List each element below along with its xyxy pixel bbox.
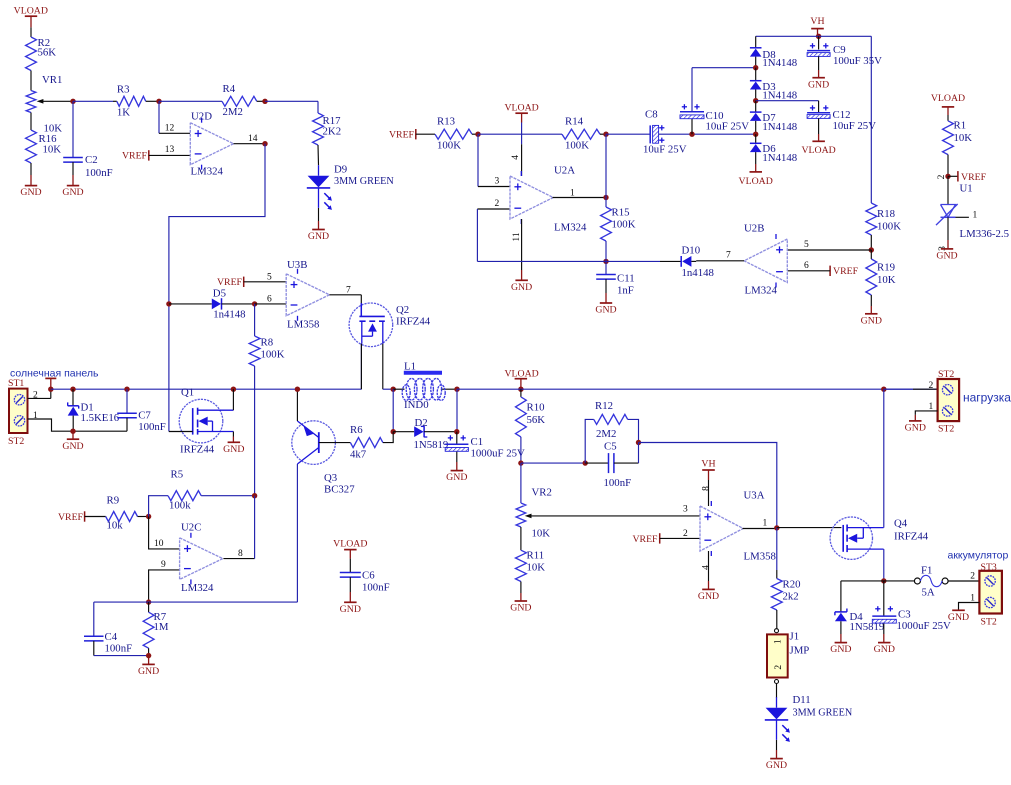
svg-text:100nF: 100nF bbox=[362, 582, 390, 594]
node R13/pin3 junction bbox=[475, 132, 480, 137]
resistor R9 bbox=[106, 495, 149, 532]
ground below U1 bbox=[936, 217, 957, 261]
svg-text:2: 2 bbox=[33, 391, 38, 401]
svg-text:C5: C5 bbox=[604, 441, 617, 453]
svg-text:GND: GND bbox=[808, 79, 829, 90]
svg-text:U3A: U3A bbox=[744, 490, 765, 502]
resistor R2 bbox=[26, 37, 57, 71]
svg-text:6: 6 bbox=[267, 295, 272, 305]
ground below C2 bbox=[62, 175, 83, 198]
node C10 bottom junction bbox=[689, 132, 694, 137]
ground below R19 bbox=[861, 295, 882, 326]
pin 5 label U3B bbox=[267, 273, 272, 283]
connector ST2 load designator bbox=[938, 369, 954, 380]
svg-text:D11: D11 bbox=[793, 694, 811, 706]
wire panel bus bbox=[51, 344, 362, 390]
node R9/R5 junction bbox=[146, 514, 151, 519]
svg-text:VREF: VREF bbox=[217, 277, 243, 288]
svg-text:GND: GND bbox=[830, 644, 851, 655]
pin 6 label U3B bbox=[267, 295, 272, 305]
capacitor C6 bbox=[340, 570, 390, 594]
transistor Q1 IRFZ44 bbox=[179, 387, 233, 456]
node pin9/R7/C4 junction bbox=[146, 599, 151, 604]
wire output to Q4 gate bbox=[777, 527, 842, 529]
wire junction to pin 10 bbox=[149, 517, 180, 549]
node R10/VR2/C5 junction bbox=[518, 460, 523, 465]
power VLOAD below D6 bbox=[739, 164, 773, 187]
node bus left end bbox=[48, 387, 53, 392]
svg-text:LM358: LM358 bbox=[287, 319, 319, 331]
pin 2 label (rotated) bbox=[937, 174, 947, 179]
power VREF at U1 bbox=[948, 171, 987, 183]
ground below R11 bbox=[510, 582, 531, 614]
pin 12 label bbox=[165, 124, 175, 134]
pin 1 label bbox=[973, 211, 978, 221]
jumper J1 bbox=[767, 629, 809, 684]
svg-text:1000uF 25V: 1000uF 25V bbox=[471, 448, 525, 460]
svg-text:1000uF 25V: 1000uF 25V bbox=[897, 620, 951, 632]
resistor R12 bbox=[585, 400, 638, 463]
potentiometer VR1 bbox=[26, 74, 73, 135]
svg-text:IND0: IND0 bbox=[404, 399, 429, 411]
svg-text:10uF 25V: 10uF 25V bbox=[643, 144, 687, 156]
power VLOAD above R1 bbox=[931, 93, 965, 121]
wire junction to pin 6 U3B bbox=[255, 303, 287, 305]
svg-text:F1: F1 bbox=[921, 565, 932, 577]
LED D9 bbox=[307, 164, 395, 210]
wire junction to R4 bbox=[159, 100, 222, 102]
svg-text:GND: GND bbox=[698, 591, 719, 602]
wire VR1-R16 bbox=[30, 113, 32, 131]
node Q1 drain on bus bbox=[231, 387, 236, 392]
resistor R6 bbox=[350, 424, 393, 461]
diode D8 bbox=[750, 36, 797, 69]
op-amp U2C bbox=[180, 522, 223, 595]
power VLOAD below C12 bbox=[801, 118, 835, 156]
node R5/R8/output junction bbox=[252, 493, 257, 498]
svg-text:LM336-2.5: LM336-2.5 bbox=[960, 228, 1009, 240]
svg-text:1n4148: 1n4148 bbox=[682, 267, 714, 279]
svg-text:аккумулятор: аккумулятор bbox=[948, 550, 1009, 562]
capacitor C8 (polarized, series) bbox=[606, 109, 687, 156]
power VREF at U3B pin 5 bbox=[217, 277, 286, 288]
svg-text:11: 11 bbox=[512, 232, 522, 241]
wire U3A output bbox=[743, 528, 777, 530]
node D1 top bbox=[70, 387, 75, 392]
svg-text:1N4148: 1N4148 bbox=[762, 121, 797, 133]
svg-text:1N5819: 1N5819 bbox=[414, 439, 449, 451]
ground below D9 bbox=[308, 208, 329, 242]
node D5 branch junction bbox=[166, 301, 171, 306]
svg-text:R11: R11 bbox=[527, 550, 545, 562]
connector ST3 designator bbox=[981, 562, 997, 573]
resistor R3 bbox=[113, 84, 159, 119]
diode D7 bbox=[750, 101, 797, 135]
svg-text:GND: GND bbox=[62, 441, 83, 452]
svg-text:R20: R20 bbox=[783, 579, 801, 591]
power VREF at pin 6 bbox=[787, 266, 858, 278]
wire to pin 12 bbox=[159, 101, 190, 133]
resistor R19 bbox=[866, 250, 896, 295]
svg-text:VLOAD: VLOAD bbox=[931, 93, 965, 104]
svg-text:C7: C7 bbox=[138, 410, 151, 422]
svg-text:ST1: ST1 bbox=[8, 378, 24, 389]
svg-text:10uF 25V: 10uF 25V bbox=[833, 120, 877, 132]
svg-text:VLOAD: VLOAD bbox=[801, 145, 835, 156]
node VLOAD bus junction bbox=[518, 387, 523, 392]
svg-text:8: 8 bbox=[238, 549, 243, 559]
ground below C11 bbox=[595, 293, 616, 316]
svg-text:R1: R1 bbox=[954, 120, 967, 132]
svg-text:C2: C2 bbox=[85, 154, 98, 166]
svg-text:13: 13 bbox=[165, 145, 175, 155]
diode D10 bbox=[681, 245, 714, 279]
svg-text:U2C: U2C bbox=[181, 522, 201, 534]
wire VH bus bbox=[756, 36, 872, 203]
svg-text:100uF 35V: 100uF 35V bbox=[833, 55, 882, 67]
svg-text:R12: R12 bbox=[595, 400, 613, 412]
pin 2 label U3A bbox=[683, 529, 688, 539]
diode D6 bbox=[750, 134, 797, 164]
svg-text:BC327: BC327 bbox=[324, 484, 355, 496]
svg-text:D9: D9 bbox=[334, 164, 347, 176]
wire R13 junction to R14 bbox=[478, 133, 562, 135]
svg-text:5: 5 bbox=[804, 240, 809, 250]
node L1 right junction bbox=[454, 387, 459, 392]
pin 13 label bbox=[165, 145, 175, 155]
wire output to Q1 gate column bbox=[169, 144, 265, 432]
svg-text:100nF: 100nF bbox=[105, 643, 133, 655]
wire L1 bypass right bbox=[456, 389, 458, 432]
wire junction to fuse bbox=[884, 580, 915, 582]
svg-text:VR2: VR2 bbox=[532, 487, 552, 499]
svg-text:GND: GND bbox=[766, 760, 787, 771]
svg-text:2K2: 2K2 bbox=[323, 125, 342, 137]
svg-text:R10: R10 bbox=[527, 402, 545, 414]
svg-text:C1: C1 bbox=[471, 436, 484, 448]
resistor R20 bbox=[771, 528, 800, 629]
ground below D11 bbox=[766, 740, 787, 771]
connector ST2 load body bbox=[938, 379, 960, 421]
svg-text:1n4148: 1n4148 bbox=[213, 309, 245, 321]
svg-text:Q2: Q2 bbox=[396, 304, 409, 316]
svg-text:U2B: U2B bbox=[744, 223, 764, 235]
svg-text:C8: C8 bbox=[645, 109, 658, 121]
ground below D4 bbox=[830, 634, 851, 655]
wire Q4 drain riser bbox=[883, 389, 885, 527]
svg-text:10K: 10K bbox=[954, 132, 973, 144]
op-amp U2A bbox=[510, 165, 587, 234]
node D3/D7 junction bbox=[753, 98, 758, 103]
svg-text:VREF: VREF bbox=[833, 266, 859, 277]
ground below D1 bbox=[62, 431, 83, 452]
wire ST1 pin2 to bus bbox=[28, 389, 51, 398]
svg-text:GND: GND bbox=[308, 231, 329, 242]
svg-text:GND: GND bbox=[510, 603, 531, 614]
svg-text:GND: GND bbox=[874, 644, 895, 655]
svg-text:C9: C9 bbox=[833, 44, 846, 56]
node load bus junction bbox=[881, 387, 886, 392]
svg-text:IRFZ44: IRFZ44 bbox=[894, 531, 929, 543]
wire U2C output feedback bbox=[223, 496, 254, 559]
svg-text:GND: GND bbox=[223, 444, 244, 455]
pin 10 label bbox=[154, 539, 164, 549]
svg-text:D10: D10 bbox=[682, 245, 701, 257]
diode D4 (1N5819) bbox=[835, 609, 884, 635]
svg-text:1K: 1K bbox=[117, 107, 130, 119]
node C7 top bbox=[124, 387, 129, 392]
power VLOAD above C6 bbox=[333, 538, 367, 572]
svg-text:R4: R4 bbox=[223, 83, 236, 95]
connector ST2 load type label bbox=[938, 424, 954, 435]
svg-text:Q3: Q3 bbox=[324, 472, 337, 484]
pin 7 label U3B bbox=[346, 286, 351, 296]
node D5/R8/pin6 junction bbox=[252, 301, 257, 306]
wire Q2 drain drop bbox=[383, 344, 393, 390]
svg-text:1N4148: 1N4148 bbox=[762, 90, 797, 102]
svg-text:LM324: LM324 bbox=[191, 166, 224, 178]
power VREF at pin 13 bbox=[122, 150, 190, 161]
svg-text:R19: R19 bbox=[877, 262, 895, 274]
wire bus L1 to load bbox=[457, 388, 938, 390]
pin 8 label bbox=[238, 549, 243, 559]
svg-text:4: 4 bbox=[511, 155, 521, 160]
resistor R16 bbox=[26, 130, 62, 163]
reference U1 LM336-2.5 bbox=[936, 176, 1009, 240]
ground below U3A bbox=[698, 551, 719, 602]
svg-text:LM358: LM358 bbox=[744, 551, 776, 563]
power VREF at U3A pin 2 bbox=[632, 533, 700, 545]
power VREF at R9 bbox=[58, 511, 106, 523]
svg-text:JMP: JMP bbox=[790, 645, 810, 657]
ground below C1 bbox=[446, 452, 467, 484]
node R3/R4 junction bbox=[156, 99, 161, 104]
node Q3 emitter on bus bbox=[295, 387, 300, 392]
node D2 cathode junction bbox=[454, 429, 459, 434]
LED D11 bbox=[765, 694, 853, 742]
svg-text:2: 2 bbox=[683, 529, 688, 539]
power marker on panel bus bbox=[45, 378, 56, 389]
svg-text:10K: 10K bbox=[877, 274, 896, 286]
resistor R10 bbox=[516, 389, 546, 463]
pin 3 label U3A bbox=[683, 505, 688, 515]
pin 7 label bbox=[726, 251, 731, 261]
wire pin 3 riser bbox=[478, 134, 510, 186]
svg-text:R5: R5 bbox=[171, 469, 184, 481]
svg-text:R15: R15 bbox=[612, 207, 630, 219]
pin 1 label bbox=[570, 189, 575, 199]
pin 4 label U3A (rotated) bbox=[702, 565, 712, 570]
node D8/D3 junction bbox=[753, 65, 758, 70]
svg-text:1M: 1M bbox=[154, 621, 169, 633]
svg-text:Q4: Q4 bbox=[894, 518, 908, 530]
pin 2 label ST3 bbox=[970, 572, 975, 582]
svg-text:J1: J1 bbox=[790, 631, 800, 643]
capacitor C5 (series) bbox=[585, 441, 638, 490]
svg-text:10: 10 bbox=[154, 539, 164, 549]
power VREF at R13 bbox=[389, 129, 435, 141]
svg-text:10K: 10K bbox=[527, 562, 546, 574]
pin 1 label ST2 load bbox=[929, 402, 934, 412]
svg-text:VREF: VREF bbox=[632, 534, 658, 545]
svg-text:VH: VH bbox=[810, 16, 824, 27]
node R4/output junction bbox=[262, 99, 267, 147]
capacitor C9 (polarized) bbox=[807, 36, 882, 67]
svg-text:R14: R14 bbox=[565, 116, 584, 128]
svg-text:9: 9 bbox=[161, 560, 166, 570]
wire L1 bypass left bbox=[392, 389, 394, 432]
wire Q1 source to ground bbox=[223, 432, 244, 455]
resistor R1 bbox=[943, 120, 973, 155]
capacitor C12 (polarized) bbox=[807, 105, 876, 132]
svg-text:10K: 10K bbox=[43, 144, 62, 156]
wire U2A output bbox=[553, 197, 607, 199]
power VLOAD on bus bbox=[504, 369, 538, 390]
svg-text:12: 12 bbox=[165, 124, 175, 134]
svg-text:GND: GND bbox=[595, 305, 616, 316]
svg-text:1: 1 bbox=[973, 211, 978, 221]
svg-text:1.5KE16: 1.5KE16 bbox=[81, 412, 120, 424]
svg-text:GND: GND bbox=[20, 187, 41, 198]
wire bus to ST2 load bbox=[884, 388, 938, 390]
capacitor C2 bbox=[63, 101, 112, 179]
pin 8 label U3A (rotated) bbox=[702, 486, 712, 491]
power VLOAD above U2A bbox=[504, 102, 538, 176]
ground below C3 bbox=[874, 624, 895, 656]
resistor R11 bbox=[516, 527, 546, 582]
svg-text:100K: 100K bbox=[261, 349, 285, 361]
svg-text:нагрузка: нагрузка bbox=[963, 391, 1011, 405]
wire wiper to R3 bbox=[73, 100, 113, 102]
wire U2B output bbox=[696, 260, 744, 262]
power VLOAD (top left) bbox=[14, 5, 48, 37]
svg-text:4: 4 bbox=[702, 565, 712, 570]
svg-text:5: 5 bbox=[267, 273, 272, 283]
transistor Q3 BC327 bbox=[292, 421, 355, 496]
node D1 bottom rail bbox=[70, 429, 75, 434]
svg-text:100nF: 100nF bbox=[85, 167, 113, 179]
svg-text:D5: D5 bbox=[213, 288, 226, 300]
label solar panel bbox=[10, 367, 99, 379]
svg-text:GND: GND bbox=[936, 251, 957, 262]
wire R4 junction to R17 bbox=[265, 101, 318, 113]
svg-text:14: 14 bbox=[248, 134, 258, 144]
op-amp U3A bbox=[700, 490, 776, 563]
node Q4 source junction bbox=[881, 578, 886, 583]
node R7/C4 bottom junction bbox=[146, 653, 151, 658]
pin 14 label bbox=[248, 134, 258, 144]
op-amp U2B (mirrored) bbox=[744, 223, 787, 297]
svg-text:3: 3 bbox=[495, 177, 500, 187]
svg-text:U2A: U2A bbox=[554, 165, 575, 177]
svg-text:R3: R3 bbox=[117, 84, 130, 96]
svg-text:10k: 10k bbox=[107, 520, 124, 532]
diode D3 bbox=[750, 68, 797, 102]
op-amp U3B bbox=[286, 259, 329, 331]
resistor R17 bbox=[313, 113, 342, 145]
connector ST1 type label bbox=[8, 436, 24, 447]
svg-text:2: 2 bbox=[929, 381, 934, 391]
svg-text:7: 7 bbox=[346, 286, 351, 296]
svg-text:VREF: VREF bbox=[58, 512, 84, 523]
node R15/C11 junction bbox=[603, 259, 608, 264]
svg-text:VLOAD: VLOAD bbox=[504, 102, 538, 113]
pin 6 label bbox=[804, 261, 809, 271]
svg-text:1N4148: 1N4148 bbox=[762, 152, 797, 164]
wire fuse to ST3 bbox=[948, 580, 979, 582]
node R14/C8 junction bbox=[603, 132, 608, 137]
svg-text:100k: 100k bbox=[169, 500, 191, 512]
svg-text:IRFZ44: IRFZ44 bbox=[180, 444, 215, 456]
svg-text:100K: 100K bbox=[437, 140, 461, 152]
resistor R13 bbox=[435, 116, 478, 152]
svg-text:VR1: VR1 bbox=[42, 74, 62, 86]
svg-text:VH: VH bbox=[701, 458, 715, 469]
svg-text:5A: 5A bbox=[922, 587, 935, 599]
transistor Q4 IRFZ44 bbox=[830, 517, 929, 559]
svg-text:C3: C3 bbox=[898, 609, 911, 621]
svg-text:R6: R6 bbox=[350, 424, 363, 436]
svg-text:10K: 10K bbox=[532, 528, 551, 540]
pin 3 label bbox=[495, 177, 500, 187]
power VH (top) bbox=[810, 16, 824, 36]
svg-text:D2: D2 bbox=[415, 417, 428, 429]
pin 1 label ST3 bbox=[970, 594, 975, 604]
wire U2D output bbox=[234, 143, 266, 145]
svg-text:7: 7 bbox=[726, 251, 731, 261]
svg-text:2: 2 bbox=[937, 174, 947, 179]
ground below C9 bbox=[808, 56, 829, 90]
svg-text:56K: 56K bbox=[527, 414, 546, 426]
svg-text:VLOAD: VLOAD bbox=[333, 538, 367, 549]
svg-text:3: 3 bbox=[683, 505, 688, 515]
wire J1 to D11 bbox=[776, 684, 778, 699]
resistor R5 bbox=[149, 469, 255, 517]
wire ST3 pin1 to ground bbox=[948, 603, 980, 623]
svg-text:R9: R9 bbox=[107, 495, 120, 507]
svg-text:LM324: LM324 bbox=[181, 582, 214, 594]
svg-text:LM324: LM324 bbox=[745, 285, 778, 297]
wire R14 junction down to R15 bbox=[605, 134, 607, 197]
wire R2-VR1 bbox=[30, 71, 32, 91]
svg-text:100K: 100K bbox=[565, 140, 589, 152]
wire Q4 source to D4 bbox=[841, 581, 884, 612]
svg-text:L1: L1 bbox=[404, 361, 416, 373]
pin 3 label (rotated) bbox=[938, 246, 948, 251]
svg-text:1N4148: 1N4148 bbox=[762, 57, 797, 69]
transistor Q2 IRFZ44 bbox=[349, 303, 431, 347]
svg-text:GND: GND bbox=[340, 604, 361, 615]
svg-text:GND: GND bbox=[446, 472, 467, 483]
svg-text:VREF: VREF bbox=[122, 150, 148, 161]
svg-text:1: 1 bbox=[774, 639, 784, 644]
diode D1 (1.5KE16) bbox=[68, 389, 120, 431]
svg-text:GND: GND bbox=[62, 187, 83, 198]
capacitor C4 bbox=[84, 602, 149, 656]
svg-text:3MM GREEN: 3MM GREEN bbox=[334, 176, 394, 187]
svg-text:GND: GND bbox=[905, 423, 926, 434]
resistor R18 bbox=[866, 203, 901, 250]
connector ST3 type label bbox=[981, 617, 997, 628]
capacitor C1 (polarized) bbox=[445, 432, 525, 460]
svg-text:R8: R8 bbox=[261, 337, 274, 349]
capacitor C7 bbox=[117, 389, 166, 433]
pin 5 label bbox=[804, 240, 809, 250]
wire pin 5 bbox=[787, 249, 871, 251]
svg-text:1nF: 1nF bbox=[617, 285, 634, 297]
svg-text:2M2: 2M2 bbox=[596, 428, 616, 440]
svg-text:U1: U1 bbox=[960, 183, 973, 195]
